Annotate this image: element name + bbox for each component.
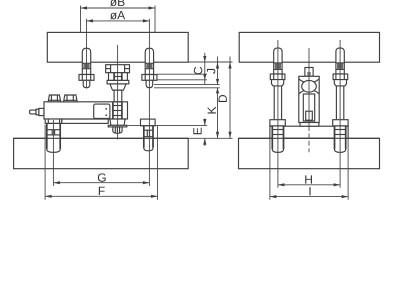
label plate on load cell <box>94 104 110 118</box>
centerline stud R / right bolt <box>148 19 150 186</box>
stud L (top plate, left) <box>79 48 94 87</box>
center fitting nut <box>109 73 128 81</box>
centerline fitting <box>117 45 119 140</box>
bottom plate <box>239 138 380 168</box>
dim D <box>219 57 232 139</box>
top plate (structure) <box>47 32 188 62</box>
load cell body <box>44 102 128 119</box>
dim G <box>45 125 157 200</box>
bottom plate (foundation) <box>14 138 189 168</box>
dim ØA <box>87 11 150 23</box>
stud R (top plate, right) <box>142 48 157 87</box>
dim C <box>194 53 207 85</box>
foot anchor bolt <box>47 123 60 152</box>
centerline stud R <box>339 40 341 188</box>
center fitting flange <box>106 65 130 73</box>
right end threaded tip <box>113 127 122 133</box>
stud R assembly <box>333 48 348 152</box>
dim H <box>278 175 340 186</box>
center fitting cone <box>110 84 126 90</box>
dim E <box>193 119 206 147</box>
dim F <box>45 187 157 198</box>
center pin body <box>299 76 319 126</box>
bottom plate top edge over bolts <box>239 137 380 139</box>
left foot washer <box>45 119 62 123</box>
base bar <box>270 126 348 138</box>
load cell cap 1 <box>48 95 61 102</box>
dim J <box>207 57 219 85</box>
connector <box>30 108 44 115</box>
top plate <box>239 32 379 62</box>
centerline center pin <box>308 48 310 126</box>
center pin head <box>305 68 313 77</box>
center fitting washer <box>107 80 129 84</box>
stud L assembly <box>270 48 285 152</box>
centerline stud L <box>277 40 279 188</box>
center rod upper <box>114 90 122 102</box>
dim I <box>270 138 348 199</box>
centerline stud L <box>86 19 88 89</box>
right hold-down bolt <box>141 119 156 151</box>
bottom slab under cell <box>62 119 108 123</box>
right end nut <box>110 119 125 125</box>
ext lines right side <box>188 61 233 63</box>
center rod through cell (threaded) <box>113 102 122 119</box>
right end washer <box>108 125 127 127</box>
dim K <box>208 88 219 139</box>
centerline foot bolt <box>52 120 54 186</box>
load cell cap 2 <box>64 95 78 102</box>
redraw plate edges crossing bolts <box>14 137 188 139</box>
dim ØB <box>81 0 156 32</box>
